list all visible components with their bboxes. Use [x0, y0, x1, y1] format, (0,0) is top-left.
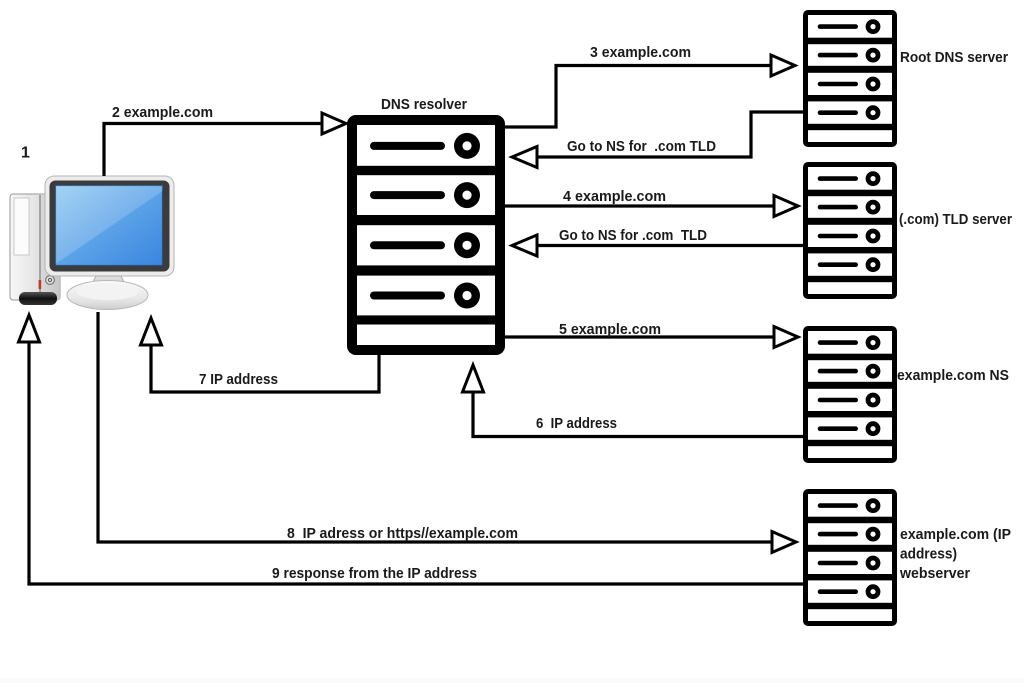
- example.com webserver: [806, 492, 895, 624]
- return-from-root label: [567, 138, 716, 155]
- svg-text:example.com NS: example.com NS: [897, 367, 1009, 384]
- wire return from TLD: Go to NS for .com TLD: [512, 235, 803, 256]
- svg-text:6 IP address: 6 IP address: [536, 415, 617, 432]
- svg-text:9 response from the IP address: 9 response from the IP address: [272, 565, 477, 582]
- example.com NS server: [806, 329, 895, 461]
- wire 4: resolver to TLD: [502, 196, 798, 217]
- return-from-TLD label: [559, 227, 707, 244]
- svg-text:4 example.com: 4 example.com: [563, 188, 666, 205]
- svg-text:7 IP address: 7 IP address: [199, 371, 278, 388]
- svg-text:8 IP adress or https//example: 8 IP adress or https//example.com: [287, 525, 518, 542]
- DNS resolver title: [381, 96, 467, 113]
- webserver label: [899, 526, 1011, 582]
- svg-text:2 example.com: 2 example.com: [112, 104, 213, 121]
- svg-text:3 example.com: 3 example.com: [590, 44, 691, 61]
- (.com) TLD server: [806, 165, 895, 297]
- bottom edge strip: [0, 679, 1024, 683]
- client computer tower: [10, 194, 60, 305]
- svg-text:example.com (IP: example.com (IP: [900, 526, 1011, 543]
- svg-text:(.com) TLD server: (.com) TLD server: [899, 211, 1012, 228]
- Root DNS server: [806, 13, 895, 145]
- wire 9: webserver back to computer: [19, 315, 804, 584]
- svg-text:Go to NS for .com TLD: Go to NS for .com TLD: [559, 227, 707, 244]
- client computer stand and base: [67, 276, 148, 310]
- svg-text:Root DNS server: Root DNS server: [900, 49, 1008, 66]
- wire 4 label: [563, 188, 666, 205]
- (.com) TLD server label: [899, 211, 1012, 228]
- wire 7 label: [199, 371, 278, 388]
- svg-text:address): address): [900, 546, 957, 563]
- wire 3: resolver to Root DNS: [502, 55, 795, 127]
- wire 8: computer to webserver: [98, 312, 796, 553]
- client computer monitor: [45, 176, 174, 276]
- wire 5 label: [559, 321, 661, 338]
- svg-text:1: 1: [21, 145, 30, 162]
- wire 5: resolver to example.com NS: [502, 327, 798, 348]
- node label 1: [21, 145, 30, 162]
- example.com NS label: [897, 367, 1009, 384]
- wire 2 label: [112, 104, 213, 121]
- wire 8 label: [287, 525, 518, 542]
- wire 3 label: [590, 44, 691, 61]
- svg-text:webserver: webserver: [899, 565, 970, 582]
- svg-text:DNS resolver: DNS resolver: [381, 96, 467, 113]
- Root DNS server label: [900, 49, 1008, 66]
- wire 7: resolver to computer: [141, 318, 380, 392]
- wire 6: NS back to resolver: [463, 365, 804, 437]
- svg-text:Go to NS for .com TLD: Go to NS for .com TLD: [567, 138, 716, 155]
- wire 9 label: [272, 565, 477, 582]
- wire 2: computer to resolver: [104, 113, 346, 176]
- DNS resolver server U-resolver: [352, 120, 500, 350]
- wire 6 label: [536, 415, 617, 432]
- wire return from Root: Go to NS for .com TLD: [512, 112, 803, 168]
- svg-text:5 example.com: 5 example.com: [559, 321, 661, 338]
